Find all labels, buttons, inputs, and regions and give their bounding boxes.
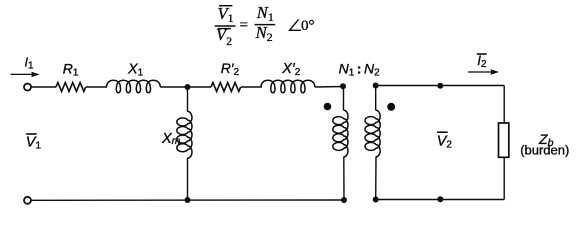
wire R1 to X1	[86, 86, 107, 88]
node E secondary top	[373, 83, 379, 89]
current arrow I1	[11, 72, 40, 77]
wire X2p to primary node	[315, 86, 344, 89]
transformer primary wire bottom	[343, 157, 345, 201]
svg-text:N2: N2	[255, 23, 273, 44]
equation V1/V2 = N1/N2 angle 0deg	[215, 3, 315, 48]
resistor R2p	[211, 83, 241, 92]
svg-text:0°: 0°	[301, 18, 315, 34]
svg-text:V1: V1	[218, 4, 234, 25]
burden Zb rectangle	[499, 123, 509, 157]
wire Xm drop	[187, 87, 189, 112]
wire right side down lower	[503, 157, 505, 200]
transformer primary wire top	[343, 86, 345, 110]
node D primary bottom	[341, 197, 347, 203]
label V1	[26, 134, 42, 151]
inductor Xm	[177, 112, 192, 159]
node B primary top	[340, 83, 346, 89]
svg-text:X′2: X′2	[281, 61, 300, 78]
svg-text:X1: X1	[127, 62, 144, 79]
svg-text:V2: V2	[437, 134, 453, 151]
inductor X2p	[261, 80, 315, 92]
svg-text:N1:N2: N1:N2	[339, 61, 381, 79]
terminal T2 bottom-left	[24, 197, 31, 204]
inductor X1	[107, 80, 161, 92]
label V2	[437, 132, 453, 150]
bottom rail left	[31, 199, 344, 201]
svg-text:V1: V1	[26, 134, 42, 151]
bottom rail right	[376, 199, 505, 201]
terminal T1 top-left	[24, 84, 31, 91]
svg-text:R1: R1	[63, 60, 79, 78]
transformer secondary coil	[365, 110, 380, 157]
transformer primary coil	[333, 110, 348, 157]
polarity dot secondary	[387, 103, 395, 111]
wire Xm to bottom	[187, 158, 189, 201]
svg-text:(burden): (burden)	[520, 143, 569, 158]
label I1	[25, 55, 34, 71]
resistor R1	[56, 83, 86, 92]
node G top right	[437, 83, 443, 89]
svg-text:=: =	[240, 18, 248, 34]
svg-text:I1: I1	[25, 55, 34, 71]
svg-text:I2: I2	[477, 53, 487, 70]
node A top of Xm	[185, 84, 191, 90]
node C bottom of Xm	[185, 197, 191, 203]
label I2 with bar	[477, 53, 487, 70]
svg-text:R′2: R′2	[221, 60, 240, 78]
wire R2p to X2p	[241, 86, 262, 88]
node F secondary bottom	[373, 197, 379, 203]
polarity dot primary	[324, 103, 332, 111]
wire X1 to R2p	[160, 86, 211, 88]
wire top rail left	[31, 86, 56, 88]
transformer secondary wire bottom	[375, 157, 377, 200]
wire right side down upper	[503, 86, 505, 124]
svg-text:N1: N1	[256, 3, 274, 24]
node H bottom right	[437, 196, 443, 202]
top rail right	[376, 85, 505, 87]
current arrow I2	[468, 69, 499, 74]
transformer secondary wire top	[375, 86, 377, 111]
